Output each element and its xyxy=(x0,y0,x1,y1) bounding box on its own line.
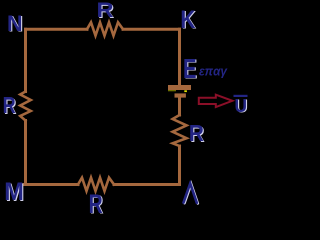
svg-text:R: R xyxy=(89,189,103,216)
svg-text:E: E xyxy=(183,53,197,84)
svg-text:R: R xyxy=(97,0,114,22)
svg-text:επαγ: επαγ xyxy=(199,64,228,79)
svg-text:R: R xyxy=(189,120,204,146)
svg-text:K: K xyxy=(180,6,195,34)
svg-text:U: U xyxy=(235,96,248,116)
svg-text:R: R xyxy=(3,92,16,118)
svg-text:N: N xyxy=(7,11,23,36)
svg-text:M: M xyxy=(4,178,24,206)
